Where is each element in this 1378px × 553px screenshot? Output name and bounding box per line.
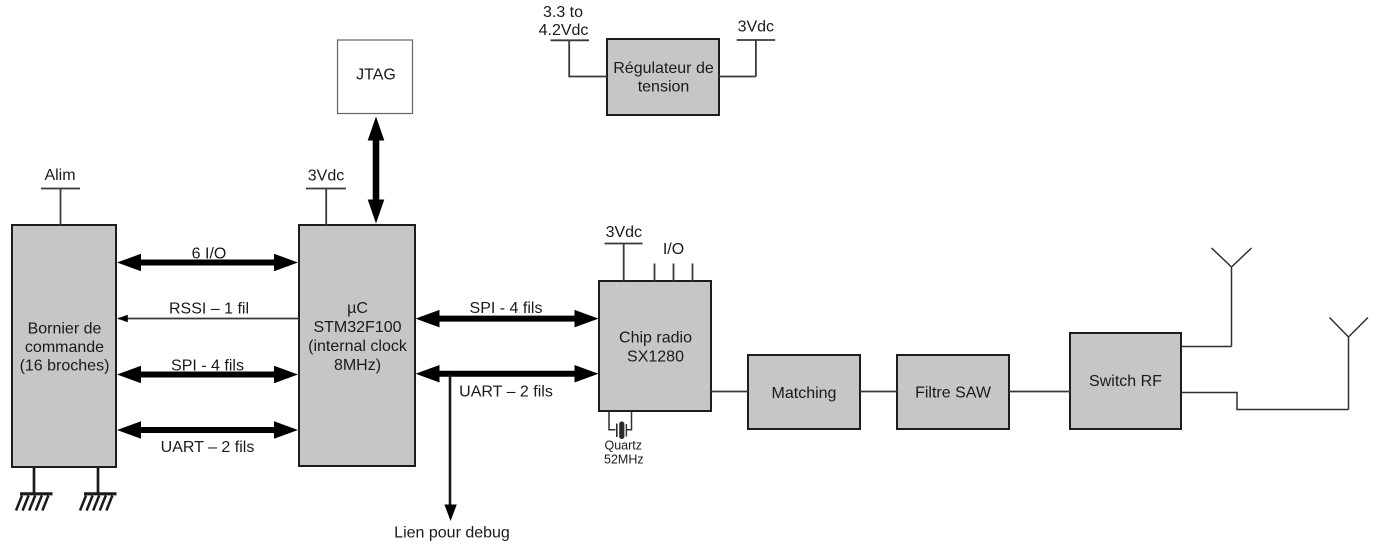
svg-text:Matching: Matching (772, 385, 837, 402)
svg-text:STM32F100: STM32F100 (313, 319, 401, 336)
block Bornier de commande (12, 225, 116, 467)
svg-text:Chip radio: Chip radio (619, 330, 692, 347)
svg-text:tension: tension (638, 79, 690, 96)
arrow RSSI - 1 fil (to Bornier) (117, 301, 299, 323)
svg-text:Bornier de: Bornier de (28, 321, 102, 338)
arrow Lien pour debug (down from UART link) (394, 375, 510, 542)
arrow JTAG link (vertical bidirectional) (368, 117, 385, 224)
svg-text:Quartz: Quartz (605, 439, 643, 453)
pin 3Vdc (uC) (306, 168, 346, 226)
svg-text:4.2Vdc: 4.2Vdc (539, 22, 589, 39)
svg-text:Switch RF: Switch RF (1089, 373, 1162, 390)
ground (left, under Bornier) (16, 467, 53, 511)
svg-text:(16 broches): (16 broches) (20, 358, 110, 375)
svg-text:52MHz: 52MHz (604, 453, 644, 467)
svg-text:3.3 to: 3.3 to (543, 4, 583, 21)
block Filtre SAW (897, 355, 1009, 429)
svg-text:UART – 2 fils: UART – 2 fils (459, 384, 553, 401)
svg-text:SPI - 4 fils: SPI - 4 fils (470, 300, 543, 317)
wire Matching to Filtre SAW (860, 391, 897, 393)
svg-text:Filtre SAW: Filtre SAW (915, 385, 992, 402)
svg-text:8MHz): 8MHz) (334, 357, 381, 374)
svg-text:commande: commande (25, 339, 104, 356)
antenna ANT1 (1212, 248, 1252, 347)
block JTAG connector (338, 40, 413, 114)
svg-text:3Vdc: 3Vdc (606, 224, 642, 241)
svg-text:I/O: I/O (663, 241, 684, 258)
wire Switch RF to antenna 1 (1181, 346, 1232, 348)
wire chip radio to Matching (711, 391, 748, 393)
svg-text:SPI - 4 fils: SPI - 4 fils (171, 358, 244, 375)
svg-text:JTAG: JTAG (356, 67, 396, 84)
block Regulateur de tension (607, 39, 719, 115)
antenna ANT2 (1330, 318, 1369, 410)
block uC STM32F100 U1 (299, 225, 415, 466)
pin Alim (41, 167, 80, 225)
block Matching (748, 355, 860, 429)
svg-text:UART – 2 fils: UART – 2 fils (161, 439, 255, 456)
svg-text:(internal clock: (internal clock (308, 338, 408, 355)
pin 3Vdc (regulator output) (719, 19, 775, 77)
svg-text:RSSI – 1 fil: RSSI – 1 fil (169, 301, 249, 318)
wire Switch RF to antenna 2 (1181, 393, 1349, 410)
svg-text:Alim: Alim (44, 167, 75, 184)
svg-text:3Vdc: 3Vdc (738, 19, 774, 36)
svg-text:SX1280: SX1280 (627, 349, 684, 366)
crystal Quartz 52MHz (604, 411, 644, 467)
svg-text:Lien pour debug: Lien pour debug (394, 525, 510, 542)
svg-text:Régulateur de: Régulateur de (613, 60, 714, 77)
ground (right, under Bornier) (80, 467, 117, 511)
svg-text:6 I/O: 6 I/O (192, 246, 227, 263)
pins I/O (chip radio) (655, 241, 693, 281)
block Switch RF (1070, 333, 1181, 429)
arrow 6 I/O (bidirectional) (117, 246, 298, 272)
pin 3.3 to 4.2Vdc (regulator input) (539, 4, 607, 77)
svg-text:µC: µC (347, 300, 368, 317)
block Chip radio SX1280 (599, 281, 711, 411)
arrow UART - 2 fils (Bornier-uC) (117, 421, 298, 456)
arrow SPI - 4 fils (uC-chip radio) (416, 300, 599, 327)
pin 3Vdc (chip radio) (605, 224, 643, 281)
svg-text:3Vdc: 3Vdc (308, 168, 344, 185)
wire Filtre SAW to Switch RF (1009, 391, 1070, 393)
arrow UART - 2 fils (uC-chip radio) (416, 365, 599, 401)
arrow SPI - 4 fils (Bornier-uC) (117, 358, 298, 384)
